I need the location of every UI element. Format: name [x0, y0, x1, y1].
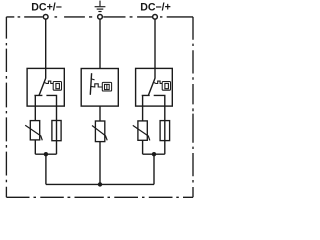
border right edge	[192, 17, 194, 197]
svg-text:DC−/+: DC−/+	[140, 2, 171, 14]
disconnector U2 (middle box)	[81, 69, 118, 107]
svg-text:DC+/−: DC+/−	[31, 2, 62, 14]
wire: RV1 to node A	[34, 140, 36, 154]
U2 linkage	[91, 84, 102, 87]
U2 monitoring fuse icon	[102, 82, 111, 91]
wire: DC-/+ terminal to right disconnector	[154, 19, 156, 78]
wire: U1 to fuse F1	[56, 106, 58, 154]
U3 linkage	[154, 81, 162, 83]
wire: node A to bus	[45, 154, 47, 184]
terminal DC+/-	[43, 14, 48, 19]
wire: DC+/- terminal to left disconnector	[45, 19, 47, 78]
wire: U3 to fuse F2	[164, 106, 166, 154]
varistor RV1	[25, 121, 42, 141]
wire: RV3 to node B	[142, 140, 144, 154]
terminal earth	[98, 14, 103, 19]
wire: earth terminal to middle disconnector	[99, 19, 101, 68]
U3 left contact	[142, 95, 150, 106]
earth symbol	[95, 1, 106, 12]
node C (bus junction dot)	[98, 182, 102, 186]
U3 right contact	[154, 95, 165, 106]
varistor RV2	[92, 121, 107, 142]
U3 switch blade	[148, 78, 155, 96]
disconnector U3 (right box)	[136, 68, 173, 106]
wire: RV2 to bus	[99, 142, 101, 185]
varistor RV3	[133, 121, 150, 140]
bus wire (bottom)	[46, 183, 154, 185]
wire: left junction connector	[35, 153, 56, 155]
fuse F1	[52, 121, 61, 141]
wire: U2 to varistor RV2	[99, 106, 101, 121]
border bottom edge	[6, 196, 193, 198]
wire: U3 to varistor RV3	[142, 106, 144, 121]
wire: right junction connector	[143, 153, 165, 155]
U1 left contact	[34, 95, 42, 106]
U1 switch blade	[39, 78, 46, 96]
wire: U1 to varistor RV1	[34, 106, 36, 121]
U1 linkage	[45, 81, 54, 83]
border left edge	[5, 17, 7, 197]
node B (right junction dot)	[152, 152, 156, 156]
terminal DC-/+	[153, 14, 158, 19]
U3 monitoring fuse icon	[162, 82, 170, 91]
fuse F2	[160, 121, 170, 141]
border top edge	[6, 16, 193, 18]
node A (left junction dot)	[44, 152, 48, 156]
enclosure border (dash-dot)	[6, 17, 193, 197]
wire: node B to bus	[153, 154, 155, 184]
U2 switch blade	[90, 73, 91, 95]
U1 monitoring fuse icon	[53, 82, 61, 91]
disconnector U1 (left box)	[27, 68, 64, 106]
U1 right contact	[46, 95, 56, 106]
